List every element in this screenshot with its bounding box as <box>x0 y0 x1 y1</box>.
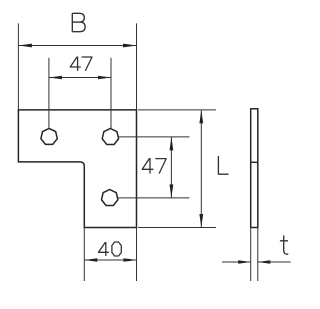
47 right arrowhead down <box>170 184 174 198</box>
40 dimension extension line right <box>136 228 138 282</box>
label B <box>72 13 85 31</box>
B dimension line <box>18 45 136 47</box>
hole H1 <box>41 128 57 144</box>
L dimension extension line top <box>138 109 216 111</box>
47 right vertical dimension line <box>170 137 172 198</box>
t dimension line left segment <box>222 261 251 263</box>
40 arrowhead right <box>124 258 137 262</box>
B arrowhead right <box>123 44 137 48</box>
side view plate (thickness t) <box>251 109 258 228</box>
47 top dimension extension line left (hole H1 centerline) <box>48 58 50 129</box>
hole H2 centerline extension right <box>119 136 190 138</box>
40 arrowhead left <box>84 258 97 262</box>
plate outline (front view of flat angle bracket) <box>18 110 136 228</box>
hole H2 <box>102 129 118 145</box>
47 top arrowhead right <box>98 76 111 80</box>
t arrowhead pointing left <box>258 260 271 264</box>
L dimension extension line bottom <box>138 227 216 229</box>
hole H3 centerline extension right <box>118 197 190 199</box>
L arrowhead down <box>199 214 203 228</box>
t dimension line right segment <box>258 261 291 263</box>
t dimension extension line right <box>257 228 259 282</box>
label 47 right <box>142 158 166 174</box>
47 top dimension extension line right (hole H2 centerline) <box>110 58 112 129</box>
40 dimension extension line left <box>83 228 85 282</box>
L dimension line <box>200 110 202 228</box>
label t <box>280 235 288 254</box>
47 top arrowhead left <box>49 76 62 80</box>
40 dimension line <box>84 259 136 261</box>
t arrowhead pointing right <box>238 260 251 264</box>
label L <box>218 156 228 174</box>
47 top dimension line <box>49 77 111 79</box>
label 47 top <box>70 57 92 71</box>
47 right arrowhead up <box>170 137 174 151</box>
B arrowhead left <box>18 44 32 48</box>
side view inner edge line <box>251 161 258 163</box>
B dimension extension line right <box>136 23 138 110</box>
B dimension extension line left <box>17 23 19 110</box>
L arrowhead up <box>199 110 203 124</box>
label 40 <box>98 242 121 256</box>
hole H3 <box>102 190 118 206</box>
t dimension extension line left <box>250 228 252 282</box>
